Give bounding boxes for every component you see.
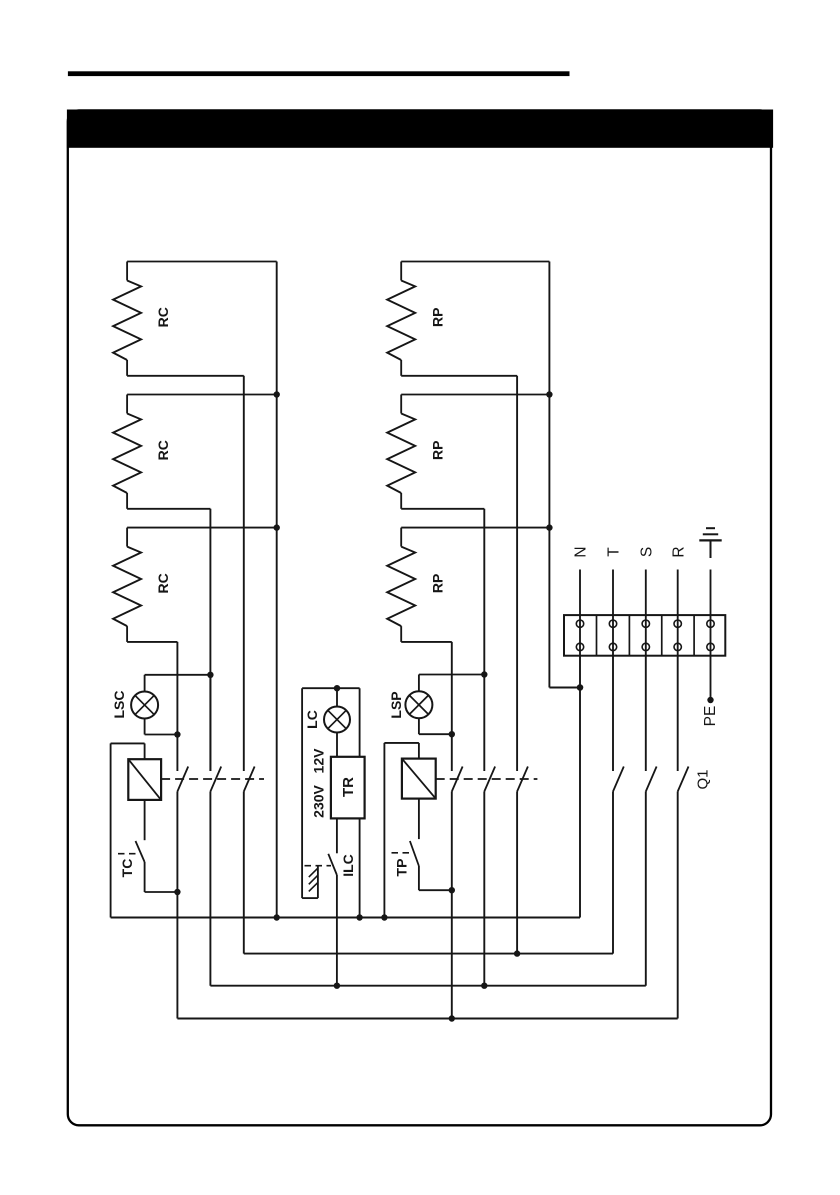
wire RP bus vertical (549, 262, 580, 688)
wire TR right bottom (359, 818, 361, 917)
wire RP3 top to bus (401, 527, 549, 529)
terminal block (564, 615, 725, 656)
svg-text:S: S (638, 547, 655, 557)
contact TC-3 (244, 767, 255, 792)
relay coil TP (402, 759, 436, 799)
wire R lower (677, 656, 679, 771)
wire RP1 bottom (401, 376, 517, 771)
wire T below Q1 (612, 792, 614, 954)
junction TP out (449, 887, 455, 893)
junction TR to N line (356, 914, 362, 920)
contact row dashed link TP (436, 778, 538, 780)
svg-text:RC: RC (155, 440, 171, 460)
resistor RC3 (113, 528, 171, 642)
svg-text:RP: RP (429, 441, 445, 460)
wire contact column x484 lower (483, 792, 485, 986)
wire R below Q1 (677, 792, 679, 1019)
svg-text:ILC: ILC (340, 854, 356, 877)
svg-text:N: N (573, 546, 590, 557)
junction LC top (334, 685, 340, 691)
wire contact column x244 lower (243, 792, 245, 954)
junction LSP bottom (449, 731, 455, 737)
wire S routing line (210, 985, 645, 987)
wire TC out (145, 862, 178, 892)
svg-text:RC: RC (155, 573, 171, 593)
contact TC-2 (210, 767, 221, 792)
breaker Q1 (613, 767, 711, 792)
wire RC3 top to bus (127, 527, 277, 529)
wire TR right top (359, 688, 361, 757)
svg-text:TP: TP (394, 859, 410, 877)
contact TP-2 (484, 767, 495, 792)
wire RC bus vertical (276, 262, 278, 918)
wire RC1 top to bus (127, 261, 277, 263)
wire RC2 bottom (127, 509, 210, 771)
title rule (68, 71, 570, 76)
wire N lower (579, 656, 581, 918)
node PE (702, 697, 719, 727)
wire contact column x177 to R line (176, 892, 178, 1019)
svg-text:LSC: LSC (111, 691, 127, 719)
relay coil TC (128, 759, 161, 800)
transformer TR (311, 748, 365, 819)
wire S lower (645, 656, 647, 771)
junction x452 to R line (449, 1015, 455, 1021)
panel border (68, 110, 771, 1125)
svg-text:230V: 230V (311, 784, 327, 817)
node T (606, 547, 623, 656)
earth symbol (699, 528, 721, 558)
junction TC out (174, 889, 180, 895)
lamp LSC (111, 691, 158, 719)
svg-text:Q1: Q1 (694, 769, 711, 789)
svg-text:12V: 12V (311, 748, 327, 774)
svg-text:T: T (606, 547, 623, 557)
junction RP bus row3 (546, 524, 552, 530)
wire T routing line (244, 953, 613, 955)
wire RP1 top to bus (401, 261, 549, 263)
wire contact column x177 lower (176, 792, 178, 893)
wire PE lower (710, 656, 712, 697)
wire contact column x517 lower (516, 792, 518, 954)
wire LSC bottom (145, 719, 178, 735)
junction LSP top (481, 671, 487, 677)
wire contact column x452 lower (451, 792, 453, 1019)
wire RC1 bottom (127, 376, 244, 771)
svg-text:LC: LC (304, 710, 320, 729)
wire N routing line (111, 917, 580, 919)
switch TP (392, 799, 419, 877)
wire RP2 bottom (401, 509, 484, 771)
resistor RC2 (113, 395, 171, 509)
junction x517 to T line (514, 950, 520, 956)
switch TC (118, 800, 145, 877)
wire TP out (419, 866, 452, 890)
chassis hatch (309, 868, 318, 891)
resistor RC1 (113, 262, 171, 376)
wire contact column x210 upper (209, 675, 211, 771)
junction LSC top (207, 672, 213, 678)
wire RC2 top to bus (127, 394, 277, 396)
svg-text:TC: TC (119, 859, 135, 878)
wire ILC out (336, 875, 338, 986)
node S (638, 547, 655, 656)
wire PE upper (710, 570, 712, 656)
wire LC to TR (336, 733, 338, 757)
contact row dashed link TC (161, 778, 264, 780)
resistor RP1 (387, 262, 445, 376)
node N (573, 546, 590, 655)
junction LSC bottom (174, 731, 180, 737)
wire contact column x210 lower (209, 792, 211, 986)
svg-text:PE: PE (702, 706, 719, 727)
junction RP bus to N wire (577, 684, 583, 690)
svg-text:RC: RC (155, 307, 171, 327)
wire RP2 top to bus (401, 394, 549, 396)
junction RP bus row2 (546, 391, 552, 397)
junction N (577, 684, 583, 690)
junction RC bus row2 (274, 391, 280, 397)
wire R routing line (177, 1018, 677, 1020)
resistor RP2 (387, 395, 445, 509)
svg-text:LSP: LSP (388, 691, 404, 718)
switch ILC (305, 818, 357, 876)
contact TP-3 (517, 767, 528, 792)
junction RC bus to N line (274, 914, 280, 920)
contact TP-1 (452, 767, 463, 792)
lamp-unit outline LC (302, 688, 360, 898)
junction x484 to S line (481, 983, 487, 989)
wire T lower (612, 656, 614, 771)
wire TC coil loop (111, 743, 145, 917)
lamp LSP (388, 691, 432, 718)
wire S below Q1 (645, 792, 647, 986)
wire TP coil loop (384, 743, 419, 918)
wire LSP top (419, 675, 484, 692)
node R (670, 546, 687, 655)
wire RP3 bottom (401, 642, 452, 771)
junction RC bus row3 (274, 524, 280, 530)
contact TC-1 (177, 767, 188, 792)
resistor RP3 (387, 528, 445, 642)
junction TP to N line (381, 914, 387, 920)
svg-text:TR: TR (340, 777, 357, 797)
wire RC3 bottom (127, 642, 177, 771)
wire LSP bottom (419, 718, 452, 734)
wire LSC top (145, 675, 211, 692)
svg-text:R: R (670, 546, 687, 557)
svg-text:RP: RP (429, 574, 445, 593)
junction ILC to S line (334, 983, 340, 989)
lamp LC (304, 688, 350, 732)
svg-text:RP: RP (429, 308, 445, 327)
panel header bar (67, 110, 773, 148)
